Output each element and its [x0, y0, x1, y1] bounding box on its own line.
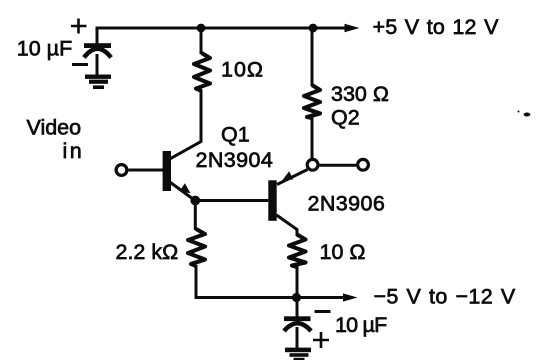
- plus label of C2: [313, 332, 329, 348]
- transistor Q1 2N3904 base bar: [163, 151, 171, 191]
- capacitor C2 10uF curved plus plate: [284, 323, 311, 331]
- Q2 collector wire: [277, 215, 298, 236]
- svg-text:10 µF: 10 µF: [335, 313, 387, 337]
- svg-text:2.2 kΩ: 2.2 kΩ: [116, 240, 179, 264]
- wire node to Q2 base: [195, 199, 268, 202]
- svg-text:2N3904: 2N3904: [196, 148, 274, 172]
- stray ink speck right edge: [518, 111, 531, 117]
- wire bottom negative rail: [195, 296, 345, 299]
- resistor R4 10 ohm (lower): [289, 235, 306, 268]
- wire 330-ohm branch from top rail: [311, 28, 314, 86]
- Q2 emitter wire: [277, 170, 308, 185]
- wire from top rail down to C1: [96, 27, 99, 45]
- capacitor C1 10uF curved minus plate: [84, 49, 111, 58]
- minus label of C1: [72, 63, 88, 66]
- resistor R2 330 ohm: [304, 85, 320, 118]
- Q1 emitter wire: [171, 183, 196, 201]
- capacitor C2 10uF minus plate: [284, 316, 311, 321]
- node emitter/base junction: [190, 196, 200, 206]
- node junction top rail / 10-ohm branch: [197, 24, 206, 33]
- svg-text:Video: Video: [27, 116, 82, 140]
- svg-text:Q2: Q2: [331, 106, 360, 130]
- svg-text:−5 V to −12 V: −5 V to −12 V: [374, 285, 516, 309]
- svg-text:+5 V to 12 V: +5 V to 12 V: [373, 15, 500, 39]
- svg-text:10Ω: 10Ω: [221, 58, 264, 82]
- wire node down to R3: [194, 201, 197, 231]
- terminal input circle: [116, 165, 127, 176]
- arrow +V rail: [345, 24, 360, 32]
- node junction top rail / 330-ohm branch: [309, 24, 318, 33]
- svg-text:10 Ω: 10 Ω: [320, 240, 366, 264]
- terminal circle at Q2 emitter: [307, 159, 318, 170]
- resistor R3 2.2k: [188, 229, 205, 266]
- wire C2 to ground: [296, 327, 299, 349]
- wire R1 to Q1 collector: [170, 90, 201, 159]
- wire to output circle: [319, 164, 356, 167]
- svg-text:2N3906: 2N3906: [308, 192, 386, 216]
- svg-text:Q1: Q1: [221, 123, 250, 147]
- svg-text:330 Ω: 330 Ω: [331, 82, 389, 106]
- minus label of C2: [315, 310, 331, 313]
- Q2 emitter arrow (PNP, points to base bar): [282, 171, 293, 180]
- terminal output circle: [358, 159, 369, 170]
- ground under C2: [285, 348, 311, 360]
- wire R2 to emitter node circle: [311, 117, 314, 160]
- transistor Q2 2N3906 base bar: [268, 180, 276, 221]
- plus label of C1: [71, 19, 87, 34]
- wire bottom rail to C2: [296, 298, 299, 318]
- wire R4 to bottom rail: [296, 266, 299, 298]
- wire from C1 to ground: [96, 54, 99, 76]
- ground under C1: [85, 75, 111, 90]
- arrow -V rail: [343, 293, 358, 301]
- svg-text:10 µF: 10 µF: [17, 37, 72, 61]
- Q1 emitter arrow: [180, 183, 191, 193]
- wire top rail to R1: [200, 28, 203, 54]
- svg-text:in: in: [63, 139, 85, 163]
- node junction bottom rail / C2: [292, 293, 301, 302]
- resistor R1 10 ohm (upper): [194, 53, 210, 91]
- wire top positive rail: [96, 27, 348, 30]
- capacitor C1 10uF plus plate: [84, 43, 111, 48]
- wire R3 to bottom rail: [195, 265, 198, 299]
- wire input to Q1 base: [129, 169, 164, 172]
